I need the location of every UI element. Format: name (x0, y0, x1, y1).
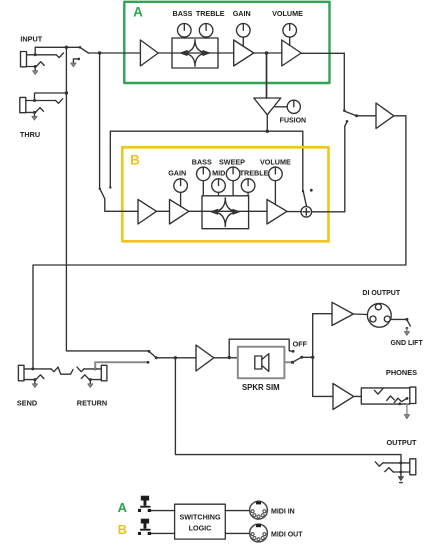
ground output (398, 472, 403, 483)
wire amp to spkr sim (214, 357, 238, 359)
wire amp A1 to tone box A (158, 52, 172, 54)
svg-text:B: B (118, 522, 127, 537)
switch input lever (80, 48, 88, 53)
EQ star A (181, 40, 209, 67)
knob VOLUME (A) (283, 24, 297, 46)
wire thru tap (35, 93, 67, 101)
knob MID (B) (212, 179, 226, 196)
svg-text:SWITCHING: SWITCHING (179, 512, 221, 521)
jack INPUT (21, 52, 64, 69)
node output tap (174, 356, 177, 359)
svg-text:FUSION: FUSION (280, 117, 306, 124)
wire through tone box B (202, 210, 249, 212)
node B feed (98, 51, 101, 54)
op-amp PHONES (333, 384, 354, 410)
switch master A/B lever (345, 111, 357, 116)
wire gain A to volume A (254, 52, 282, 54)
box SPKR SIM (238, 347, 285, 379)
knob BASS (B) (197, 167, 211, 196)
svg-text:GAIN: GAIN (233, 9, 251, 18)
ground send jack (32, 380, 37, 388)
connector XLR DI (367, 303, 391, 327)
wire input up and right (35, 47, 80, 55)
knob GAIN (A) (237, 24, 251, 47)
svg-text:VOLUME: VOLUME (272, 9, 303, 18)
node spkr pivot (300, 356, 303, 359)
wire sum out (312, 126, 345, 212)
contact input switch (79, 46, 82, 49)
wire A direct down (343, 53, 345, 110)
ground gnd lift (404, 328, 409, 335)
op-amp A1 (140, 40, 158, 66)
connector MIDI IN (250, 501, 268, 519)
wire volume A out of box A (301, 52, 344, 54)
wire send normalled link (58, 367, 73, 374)
svg-text:VOLUME: VOLUME (260, 157, 291, 166)
svg-text:BASS: BASS (173, 9, 193, 18)
switch A to sum (302, 189, 313, 206)
wire fusion bus (110, 131, 302, 190)
op-amp GAIN A (234, 40, 254, 66)
connector MIDI OUT (250, 524, 268, 542)
svg-text:INPUT: INPUT (20, 35, 42, 44)
switch gnd lift lever (407, 320, 410, 326)
wire fusion out (266, 115, 268, 131)
box SWITCHING LOGIC (175, 504, 226, 539)
svg-text:GAIN: GAIN (168, 169, 186, 178)
arrowhead right tone A (203, 51, 209, 55)
svg-text:B: B (130, 153, 140, 168)
tone box B (202, 196, 249, 229)
svg-text:RETURN: RETURN (77, 399, 107, 408)
knob TREBLE (A) (199, 24, 213, 39)
wire to master amp (357, 115, 377, 117)
svg-text:TREBLE: TREBLE (196, 9, 225, 18)
wire phones feed (313, 395, 333, 397)
op-amp loop (196, 345, 214, 371)
wire logic to midi out (225, 532, 249, 534)
summing node (301, 207, 312, 218)
box A channel (green) (124, 2, 329, 83)
op-amp VOLUME A (282, 40, 301, 66)
wire footswitch B (151, 532, 175, 534)
svg-text:OUTPUT: OUTPUT (387, 438, 418, 447)
arrowhead right tone B (233, 210, 239, 214)
ground input jack (33, 67, 38, 75)
wire footswitch A (151, 510, 175, 512)
wire output bus (312, 314, 314, 397)
jack THRU (20, 97, 63, 114)
wire tone B to volume B (249, 210, 267, 212)
tone box A (172, 38, 218, 68)
svg-text:A: A (133, 5, 143, 20)
svg-text:GND LIFT: GND LIFT (390, 340, 423, 347)
svg-text:TREBLE: TREBLE (240, 169, 269, 178)
svg-text:SEND: SEND (17, 399, 37, 408)
knob TREBLE (B) (241, 179, 255, 196)
contact input mute (78, 58, 81, 61)
switch spkr lever (294, 357, 302, 361)
node gnd pivot (405, 318, 408, 321)
svg-text:SWEEP: SWEEP (219, 157, 245, 166)
wire gain B to tone box B (189, 210, 202, 212)
switch B input select (99, 53, 138, 211)
svg-text:MID: MID (212, 169, 225, 178)
contact gnd (406, 327, 409, 330)
jack SEND (18, 365, 58, 381)
wire di amp to xlr (353, 313, 367, 316)
box B channel (yellow) (122, 147, 328, 241)
wire sum stub to contact (345, 122, 347, 126)
svg-text:MIDI OUT: MIDI OUT (271, 531, 303, 538)
svg-text:MIDI IN: MIDI IN (271, 509, 295, 516)
footswitch B (138, 519, 151, 535)
wire B1 to gain B (157, 210, 170, 212)
node input/thru (65, 46, 68, 49)
node fusion tap (265, 51, 269, 55)
contact spkr off (292, 350, 295, 353)
svg-text:SPKR SIM: SPKR SIM (242, 383, 280, 392)
op-amp GAIN B (170, 200, 189, 225)
ground phones (404, 404, 409, 419)
svg-text:THRU: THRU (20, 130, 40, 139)
wire dry bus down (66, 47, 148, 351)
svg-text:PHONES: PHONES (386, 368, 417, 377)
arrowhead left tone B (212, 210, 218, 214)
contact loop wet (147, 361, 150, 364)
wire spkr bypass (229, 339, 292, 357)
contact A direct (343, 109, 346, 112)
jack PHONES (354, 387, 416, 405)
wire input to amp A1 (88, 52, 140, 54)
wire fusion drop (266, 53, 268, 98)
arrowhead left tone A (181, 51, 187, 55)
contact spkr through (291, 361, 294, 364)
wire tone box A to amp GAIN A (218, 52, 234, 54)
knob GAIN (B) (174, 179, 188, 207)
wire spkr to bus (302, 356, 313, 358)
op-amp VOLUME B (267, 200, 287, 225)
wire master out to loop (33, 116, 406, 369)
svg-text:BASS: BASS (192, 157, 212, 166)
svg-text:OFF: OFF (293, 340, 308, 349)
wire loop to amp (156, 357, 196, 359)
speaker icon (255, 354, 269, 372)
knob FUSION (275, 100, 300, 113)
wire xlr to gnd switch (391, 318, 407, 320)
wire mute to ground (73, 59, 78, 63)
op-amp B1 (138, 200, 157, 225)
node bus tap (311, 356, 314, 359)
wire volume B to sum (287, 211, 301, 213)
svg-text:DI OUTPUT: DI OUTPUT (362, 290, 400, 297)
knob BASS (A) (178, 24, 192, 39)
wire return to switch (95, 362, 147, 369)
contact sum (346, 120, 349, 123)
wire through tone box A (172, 52, 218, 54)
node fusion split (266, 130, 269, 133)
node master pivot (355, 114, 358, 117)
wire logic to midi in (225, 510, 249, 512)
op-amp master (376, 103, 394, 129)
node spkr bypass tap (228, 356, 231, 359)
op-amp FUSION (254, 98, 281, 115)
footswitch A (138, 496, 151, 512)
switch loop lever (150, 352, 157, 358)
wire to output jack (175, 358, 401, 463)
EQ star B (212, 198, 240, 227)
ground input mute (71, 63, 76, 67)
svg-text:LOGIC: LOGIC (189, 523, 212, 532)
node thru column (65, 91, 68, 94)
wire spkr out (284, 361, 292, 363)
svg-text:A: A (118, 500, 128, 515)
jack OUTPUT (375, 459, 415, 475)
knob VOLUME (B) (269, 167, 283, 204)
knob SWEEP (B) (226, 167, 240, 196)
wire di feed (313, 313, 332, 315)
jack RETURN (77, 365, 107, 381)
node loop pivot (155, 356, 158, 359)
ground thru jack (32, 112, 37, 120)
ground return jack (88, 380, 93, 388)
op-amp DI (332, 302, 353, 325)
contact loop dry (148, 350, 151, 353)
